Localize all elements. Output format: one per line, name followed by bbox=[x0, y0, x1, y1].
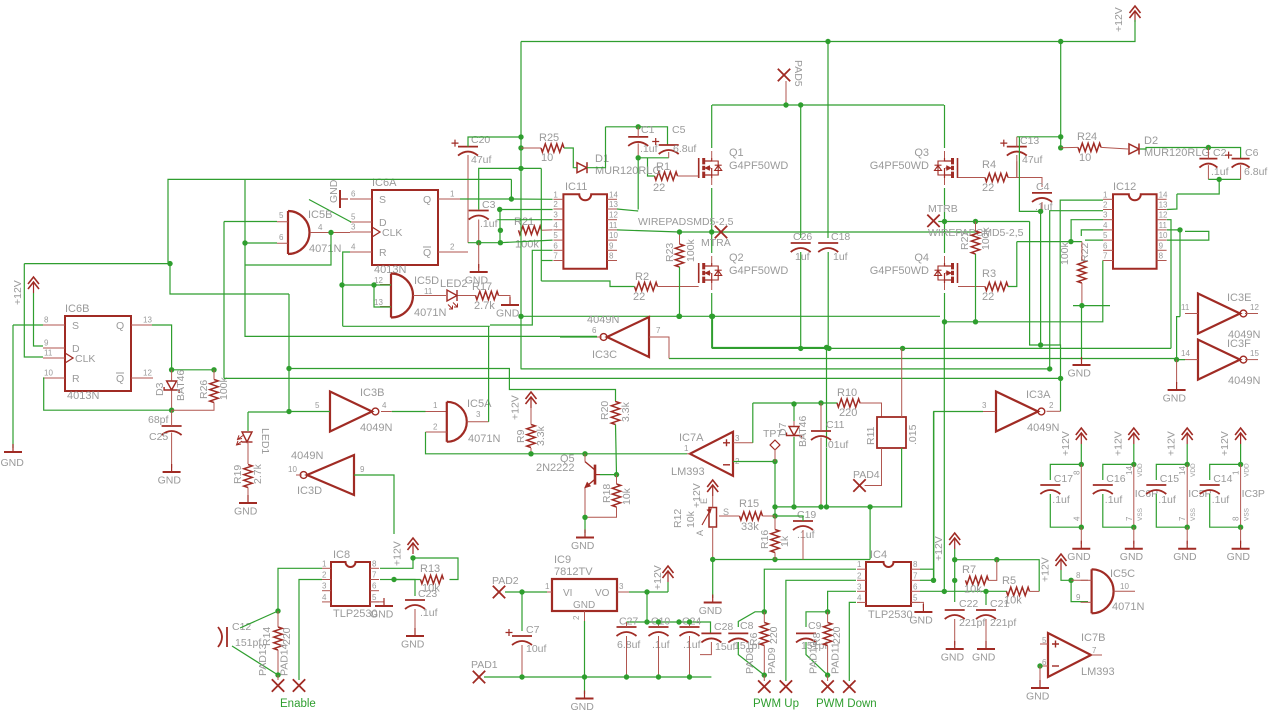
resistor R11 shunt box bbox=[877, 417, 906, 448]
svg-text:GND: GND bbox=[496, 308, 520, 320]
resistor R13 bbox=[421, 575, 444, 583]
wire MTRA rail bbox=[680, 231, 979, 233]
svg-text:10: 10 bbox=[1120, 582, 1129, 591]
svg-text:VSS: VSS bbox=[1190, 507, 1197, 521]
svg-text:GND: GND bbox=[571, 701, 595, 711]
svg-text:3: 3 bbox=[619, 582, 624, 591]
svg-text:C20: C20 bbox=[471, 134, 490, 146]
led LED2 bbox=[447, 290, 457, 301]
resistor R6 bbox=[760, 623, 768, 646]
svg-text:11: 11 bbox=[1159, 221, 1168, 230]
svg-text:C6: C6 bbox=[1245, 147, 1259, 159]
svg-text:.1uf: .1uf bbox=[1105, 494, 1123, 506]
svg-text:4: 4 bbox=[322, 593, 327, 602]
svg-text:IC7A: IC7A bbox=[679, 432, 704, 444]
junction R-pin feedback bbox=[339, 282, 344, 287]
capacitor C20 bbox=[458, 146, 478, 148]
wire IC5D out to LED2 bbox=[413, 295, 446, 297]
capacitor C10 bbox=[649, 626, 669, 628]
junction C15 top bbox=[1185, 462, 1190, 467]
svg-text:GND: GND bbox=[571, 540, 595, 552]
svg-text:9: 9 bbox=[609, 241, 614, 250]
junction Q/D3 bbox=[169, 367, 174, 372]
junction R26 top bbox=[211, 367, 216, 372]
wire Q5 collector bbox=[584, 454, 586, 461]
svg-text:R13: R13 bbox=[420, 563, 440, 575]
ground Q5 bbox=[584, 517, 586, 533]
svg-text:LED1: LED1 bbox=[259, 428, 271, 454]
wire -in vertical bbox=[774, 462, 776, 517]
led LED1 bbox=[242, 432, 252, 442]
junction MTRB bbox=[942, 219, 947, 224]
junction C11 bbox=[818, 400, 823, 405]
svg-text:GND: GND bbox=[370, 609, 394, 621]
svg-text:5: 5 bbox=[913, 593, 918, 602]
wire IC4 pin1 to PWMup bbox=[764, 569, 856, 612]
wire pin7 to C23 bbox=[394, 580, 415, 597]
wire IC12 pin1 left bbox=[1060, 200, 1103, 345]
junction C15 bottom bbox=[1185, 525, 1190, 530]
svg-text:1: 1 bbox=[684, 444, 689, 453]
svg-text:WIREPADSMD5-2,5: WIREPADSMD5-2,5 bbox=[638, 216, 734, 228]
svg-text:+12V: +12V bbox=[933, 536, 945, 561]
junction C3 bottom bbox=[476, 240, 481, 245]
svg-text:GND: GND bbox=[1163, 393, 1187, 405]
svg-text:Q: Q bbox=[423, 247, 431, 259]
ground R19 bbox=[247, 495, 249, 503]
junction caps bottom bbox=[624, 674, 629, 679]
resistor R16 bbox=[771, 530, 779, 553]
svg-text:.1uf: .1uf bbox=[652, 639, 670, 651]
wire IC3A output bbox=[1047, 410, 1061, 412]
svg-text:BAT46: BAT46 bbox=[175, 370, 187, 401]
svg-text:2: 2 bbox=[1103, 201, 1108, 210]
svg-text:14: 14 bbox=[1181, 349, 1190, 358]
wire R20 top stub bbox=[615, 401, 617, 402]
svg-text:10: 10 bbox=[541, 152, 553, 164]
wire C3 bottom bbox=[478, 220, 480, 243]
junction IC7B gnd bbox=[1037, 663, 1042, 668]
svg-text:4: 4 bbox=[553, 221, 558, 230]
svg-text:10: 10 bbox=[1159, 231, 1168, 240]
wire decoupling top rail bbox=[627, 622, 711, 633]
svg-text:12: 12 bbox=[609, 211, 618, 220]
ground mid (under C4 node) bbox=[1081, 305, 1083, 360]
svg-text:GND: GND bbox=[909, 615, 933, 627]
svg-text:1uf: 1uf bbox=[795, 251, 810, 263]
svg-text:9: 9 bbox=[1076, 593, 1081, 602]
wire R25 right to D1 bbox=[564, 148, 577, 168]
svg-text:10k: 10k bbox=[621, 487, 633, 505]
wire IC7B +in stub bbox=[1040, 643, 1048, 645]
svg-text:3.3k: 3.3k bbox=[535, 425, 547, 446]
ground R17 bbox=[509, 297, 511, 305]
svg-text:R25: R25 bbox=[539, 132, 559, 144]
svg-text:VDD: VDD bbox=[1137, 463, 1144, 477]
wire R21 right to pin4 bbox=[542, 229, 553, 231]
junction R22 bottom bbox=[1079, 303, 1084, 308]
svg-text:C22: C22 bbox=[959, 598, 978, 610]
wire gate line y241.6 bbox=[1017, 241, 1082, 243]
svg-text:GND: GND bbox=[234, 506, 258, 518]
capacitor C6 bbox=[1232, 158, 1250, 160]
resistor R25 bbox=[541, 144, 564, 152]
power +12V C14 bbox=[1235, 428, 1246, 435]
svg-text:C13: C13 bbox=[1020, 135, 1039, 147]
junction C18 bottom bbox=[826, 346, 831, 351]
svg-text:PWM Up: PWM Up bbox=[753, 698, 799, 710]
capacitor C4 bbox=[1032, 192, 1052, 194]
svg-text:R26: R26 bbox=[198, 380, 210, 399]
svg-text:R24: R24 bbox=[1077, 131, 1097, 143]
capacitor C15 bbox=[1156, 464, 1187, 480]
flip-flop IC6B bbox=[65, 316, 131, 391]
svg-text:D2: D2 bbox=[1144, 135, 1158, 147]
svg-text:6: 6 bbox=[553, 241, 558, 250]
wire R9 bottom bbox=[530, 448, 532, 454]
wire C8 bottom diag bbox=[738, 642, 764, 675]
wire R10 rail bbox=[753, 402, 838, 404]
svg-text:220: 220 bbox=[281, 627, 293, 645]
wire in9 drop bbox=[1071, 580, 1088, 601]
diode D3 BAT46 bbox=[167, 381, 177, 390]
svg-text:1: 1 bbox=[433, 401, 438, 410]
resistor R1 bbox=[655, 172, 678, 180]
svg-text:2N2222: 2N2222 bbox=[536, 462, 575, 474]
resistor R15 bbox=[740, 512, 763, 520]
junction +12V IC8 bbox=[410, 555, 415, 560]
wire IC3A input long bbox=[934, 412, 983, 581]
svg-text:8: 8 bbox=[1232, 516, 1241, 521]
svg-text:33k: 33k bbox=[741, 521, 759, 533]
wire IC12 pin12 / emitter sense bbox=[1167, 220, 1171, 349]
svg-text:7: 7 bbox=[656, 326, 661, 335]
svg-text:1: 1 bbox=[1232, 470, 1241, 475]
svg-text:7: 7 bbox=[1103, 252, 1108, 261]
wire IC8 pin2 bbox=[299, 580, 322, 681]
svg-text:IC11: IC11 bbox=[565, 181, 587, 193]
power +12V C16 bbox=[1128, 428, 1139, 435]
capacitor C25 bbox=[162, 425, 182, 427]
wire IC5C output bbox=[1114, 590, 1135, 592]
svg-text:.1uf: .1uf bbox=[1158, 494, 1176, 506]
pad PAD9 bbox=[780, 680, 792, 692]
pad MTRB bbox=[927, 215, 939, 227]
svg-text:2: 2 bbox=[322, 571, 327, 580]
svg-text:R11: R11 bbox=[865, 426, 877, 445]
wire D7 net top bbox=[793, 404, 795, 421]
junction R23 bottom bbox=[677, 314, 682, 319]
ground IC6A S pin bbox=[340, 198, 348, 200]
svg-text:5: 5 bbox=[553, 231, 558, 240]
svg-text:S: S bbox=[72, 320, 79, 332]
wire IC6A D diagonal bbox=[309, 200, 351, 223]
wire C7 bottom bbox=[521, 645, 523, 677]
wire in8 bbox=[1071, 579, 1088, 581]
svg-text:IC5C: IC5C bbox=[1110, 568, 1135, 580]
ground IC8 pin5 bbox=[370, 601, 384, 603]
junction C14 bottom bbox=[1238, 525, 1243, 530]
wire C9 bottom diag bbox=[806, 642, 828, 675]
wire IC11 pin7 down bbox=[541, 260, 552, 262]
wire IC5B out to CLK bbox=[310, 232, 350, 234]
wire C9 top bbox=[806, 612, 828, 627]
svg-text:+12V: +12V bbox=[392, 541, 404, 566]
wire +12V to D pin bbox=[34, 293, 44, 346]
svg-text:2: 2 bbox=[1049, 401, 1054, 410]
wire LED1 node bbox=[248, 411, 289, 413]
svg-text:100k: 100k bbox=[515, 239, 539, 251]
svg-text:PAD11: PAD11 bbox=[830, 642, 842, 674]
diode D7 BAT46 bbox=[789, 427, 799, 436]
pad PAD13 bbox=[272, 679, 284, 691]
capacitor C28 bbox=[701, 632, 721, 634]
svg-text:4: 4 bbox=[351, 243, 356, 252]
wire IC7A output bbox=[687, 453, 690, 455]
wire C4 bottom left bbox=[1019, 137, 1039, 212]
svg-text:GND: GND bbox=[573, 600, 595, 611]
wire C26 top bbox=[800, 105, 802, 238]
wire R23 top bbox=[679, 232, 681, 244]
svg-text:6: 6 bbox=[279, 233, 284, 242]
wire shunt low rail bbox=[775, 448, 902, 507]
svg-text:IC3C: IC3C bbox=[592, 349, 617, 361]
wire R20 bottom bbox=[616, 425, 617, 475]
svg-text:C8: C8 bbox=[740, 620, 754, 632]
svg-text:3.3k: 3.3k bbox=[620, 401, 632, 422]
junction IC3B in bbox=[286, 409, 291, 414]
capacitor C11 bbox=[811, 430, 831, 432]
wire IC7B output bbox=[1091, 654, 1102, 656]
svg-text:C21: C21 bbox=[990, 598, 1009, 610]
wire x521 down segment bbox=[520, 168, 522, 369]
svg-text:R: R bbox=[72, 373, 80, 385]
svg-text:2: 2 bbox=[857, 571, 862, 580]
svg-text:6: 6 bbox=[592, 326, 597, 335]
junction PAD10 node bbox=[825, 672, 830, 677]
wire R2 left bbox=[541, 281, 634, 287]
wire C18 top (+12V center drop) bbox=[827, 42, 829, 239]
svg-text:3: 3 bbox=[857, 582, 862, 591]
svg-text:IC3P: IC3P bbox=[1242, 488, 1265, 500]
svg-text:4049N: 4049N bbox=[291, 450, 323, 462]
wire IC5A output bbox=[467, 421, 489, 423]
svg-text:.1uf: .1uf bbox=[1052, 494, 1070, 506]
svg-text:8: 8 bbox=[913, 560, 918, 569]
svg-text:R2: R2 bbox=[635, 271, 649, 283]
svg-text:+12V: +12V bbox=[1219, 431, 1231, 456]
wire R5 right bbox=[1030, 590, 1040, 592]
wire Q1 to Q2 bbox=[711, 188, 713, 253]
svg-text:.1uf: .1uf bbox=[1212, 494, 1230, 506]
svg-text:.1uf: .1uf bbox=[480, 218, 498, 230]
wire C26 bottom bbox=[800, 252, 802, 348]
svg-text:GND: GND bbox=[328, 179, 340, 203]
capacitor C27 bbox=[617, 626, 637, 628]
svg-text:4071N: 4071N bbox=[309, 243, 341, 255]
ground IC4 pin5 bbox=[911, 602, 923, 608]
optocoupler IC4 TLP2530 bbox=[866, 562, 911, 606]
junction C26 bottom bbox=[798, 346, 803, 351]
svg-text:IC7B: IC7B bbox=[1081, 632, 1105, 644]
svg-text:C27: C27 bbox=[619, 616, 638, 628]
svg-text:C15: C15 bbox=[1160, 473, 1179, 485]
ground C14 bbox=[1240, 541, 1242, 549]
svg-text:PWM Down: PWM Down bbox=[816, 698, 877, 710]
svg-text:C2: C2 bbox=[1213, 147, 1227, 159]
junction x521 y168 bbox=[518, 166, 523, 171]
wire R1 left to C5 bottom rail bbox=[648, 158, 655, 176]
wire pin3 left bbox=[497, 219, 552, 221]
svg-text:2: 2 bbox=[433, 423, 438, 432]
svg-text:1: 1 bbox=[450, 190, 455, 199]
svg-text:.1uf: .1uf bbox=[797, 529, 815, 541]
wire x224 vertical bbox=[223, 222, 225, 379]
svg-text:68pf: 68pf bbox=[148, 414, 169, 426]
or-gate IC5B bbox=[287, 211, 289, 254]
wire comparator out line bbox=[531, 453, 687, 455]
wire C19 bottom bbox=[802, 530, 804, 560]
wire gate node to C4 bbox=[1017, 178, 1042, 188]
wire C8 top diag bbox=[738, 612, 764, 627]
resistor R9 bbox=[527, 425, 535, 448]
wire D2 to C2/C6 rail bbox=[1140, 148, 1241, 159]
junction R7 left bbox=[952, 578, 957, 583]
svg-text:IC12: IC12 bbox=[1113, 181, 1136, 193]
junction IC5B out bbox=[328, 230, 333, 235]
capacitor C5 bbox=[659, 144, 679, 146]
svg-text:+12V: +12V bbox=[1040, 557, 1052, 582]
wire R26 bottom bbox=[172, 403, 214, 411]
svg-text:G4PF50WD: G4PF50WD bbox=[729, 160, 788, 172]
wire R22 top bbox=[1081, 242, 1083, 260]
wire R18 bottom bbox=[585, 507, 617, 517]
svg-text:C26: C26 bbox=[793, 231, 812, 243]
wire IC12 pin13 up bbox=[1167, 194, 1177, 210]
junction R23 MTRA bbox=[677, 229, 682, 234]
capacitor C2 bbox=[1199, 158, 1217, 160]
svg-text:R19: R19 bbox=[232, 465, 244, 484]
junction IC5D in12 bbox=[371, 282, 376, 287]
wire C5 bottom rail bbox=[638, 157, 669, 159]
or-gate IC5D bbox=[390, 274, 392, 318]
junction C14 top bbox=[1238, 462, 1243, 467]
junction PAD8 node bbox=[762, 672, 767, 677]
svg-text:GND: GND bbox=[1, 457, 25, 469]
wire C20 bottom bbox=[467, 155, 469, 243]
svg-text:Q: Q bbox=[116, 373, 124, 385]
svg-text:GND: GND bbox=[699, 605, 723, 617]
wire R11 sense to rail bbox=[901, 348, 903, 403]
svg-text:C16: C16 bbox=[1106, 473, 1125, 485]
junction C20 top bbox=[518, 134, 523, 139]
junction PWMdown top bbox=[825, 609, 830, 614]
transistor Q5 2N2222 bbox=[594, 465, 597, 485]
capacitor C13 bbox=[1007, 146, 1027, 148]
svg-text:1uf: 1uf bbox=[833, 251, 848, 263]
wire x944 vertical bbox=[943, 322, 945, 592]
svg-text:R14: R14 bbox=[261, 627, 273, 646]
wire R pin IC6A down bbox=[343, 252, 350, 326]
svg-text:R7: R7 bbox=[962, 564, 976, 576]
voltage regulator IC9 7812TV bbox=[552, 579, 617, 611]
wire long rail y378.4 bbox=[224, 377, 1061, 379]
inverter IC3A bbox=[996, 392, 1038, 432]
wire Q5 base bbox=[600, 474, 617, 476]
wire IC5D in13 bbox=[374, 285, 391, 307]
wire IC12 pin4 left bbox=[1081, 230, 1103, 236]
svg-text:BAT46: BAT46 bbox=[797, 416, 809, 447]
junction pin7 x933 bbox=[931, 578, 936, 583]
junction top rail x1060 bbox=[1058, 39, 1063, 44]
wire IC12 pin5 left bbox=[1085, 239, 1103, 241]
wire +12V rail right bbox=[955, 560, 1039, 592]
junction base/R18 bbox=[614, 472, 619, 477]
svg-text:1: 1 bbox=[322, 559, 327, 568]
svg-text:10: 10 bbox=[44, 369, 53, 378]
svg-text:9: 9 bbox=[360, 465, 365, 474]
svg-text:3: 3 bbox=[476, 410, 481, 419]
svg-text:GND: GND bbox=[941, 652, 965, 664]
wire C20 top bbox=[468, 137, 521, 147]
svg-text:13: 13 bbox=[609, 200, 618, 209]
wire x289 vertical bbox=[288, 294, 290, 412]
wire y294 branch bbox=[170, 264, 289, 294]
optocoupler IC8 TLP2530 bbox=[331, 562, 370, 606]
wire R9 top bbox=[530, 408, 532, 425]
wire GND rail C20/C3 bbox=[468, 242, 500, 244]
svg-text:100k: 100k bbox=[1059, 241, 1071, 265]
junction IC9 gnd bbox=[582, 674, 587, 679]
svg-text:.01uf: .01uf bbox=[825, 439, 848, 451]
wire +12V bridge rail bbox=[712, 347, 903, 349]
junction top rail x828 bbox=[825, 39, 830, 44]
svg-text:VSS: VSS bbox=[1244, 507, 1251, 521]
resistor R26 bbox=[210, 380, 218, 403]
wire R4 right / gate node bbox=[1008, 161, 1017, 177]
svg-text:Q1: Q1 bbox=[729, 147, 744, 159]
ground C22 bbox=[954, 641, 956, 649]
capacitor C9 bbox=[796, 632, 816, 634]
flip-flop IC6A bbox=[372, 190, 438, 265]
svg-text:IC8: IC8 bbox=[333, 549, 350, 561]
svg-text:LED2: LED2 bbox=[440, 278, 468, 290]
wire rail B y368.9 bbox=[521, 368, 1051, 370]
wire S pin left bbox=[13, 324, 43, 326]
capacitor C24 bbox=[680, 626, 700, 628]
wire x954 down bbox=[954, 560, 956, 602]
svg-text:15: 15 bbox=[1250, 349, 1259, 358]
capacitor C12 (diag connect) bbox=[218, 627, 227, 647]
svg-text:11: 11 bbox=[424, 287, 433, 296]
wire long rail to IC3F bbox=[669, 358, 1177, 360]
transistor Q2 bbox=[698, 263, 700, 283]
junction x521 y316 bbox=[518, 314, 523, 319]
wire IC5D inputs bbox=[342, 284, 391, 286]
wire R7 right up bbox=[989, 560, 997, 581]
junction pin2 bbox=[497, 207, 502, 212]
wire IC5B input5 bbox=[224, 221, 277, 223]
junction PWMup top bbox=[762, 609, 767, 614]
svg-text:G4PF50WD: G4PF50WD bbox=[870, 265, 929, 277]
svg-text:13: 13 bbox=[374, 298, 383, 307]
wire IC3B input bbox=[289, 411, 330, 413]
junction C4 bottom bbox=[1038, 209, 1043, 214]
svg-text:14: 14 bbox=[1125, 466, 1134, 475]
svg-text:MUR120RLG: MUR120RLG bbox=[1144, 147, 1210, 159]
junction C26 top bbox=[798, 102, 803, 107]
wire LED1 top bbox=[247, 412, 249, 431]
